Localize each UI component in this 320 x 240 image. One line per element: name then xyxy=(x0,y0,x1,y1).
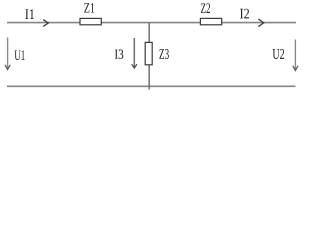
voltage U1 label xyxy=(15,50,25,60)
voltage U1 arrow (down) xyxy=(5,38,10,70)
label Z1 xyxy=(84,3,94,12)
voltage U2 arrow (down) xyxy=(293,40,298,71)
label Z2 xyxy=(201,3,210,13)
label Z3 xyxy=(159,49,168,59)
voltage U2 label xyxy=(273,49,285,59)
impedance Z3 (box) xyxy=(145,42,152,64)
impedance Z2 (box) xyxy=(200,18,221,24)
current I1 label xyxy=(25,9,34,19)
current I2 arrowhead xyxy=(258,19,263,27)
current I3 label xyxy=(115,50,124,59)
current I2 label xyxy=(240,9,249,19)
wire: middle branch (top node to bottom rail) xyxy=(148,23,150,90)
current I1 arrowhead xyxy=(43,20,48,27)
wire: bottom rail xyxy=(7,85,296,87)
current I3 arrow (down) xyxy=(132,38,137,68)
wire: top rail xyxy=(7,22,296,24)
impedance Z1 (box) xyxy=(80,18,101,24)
